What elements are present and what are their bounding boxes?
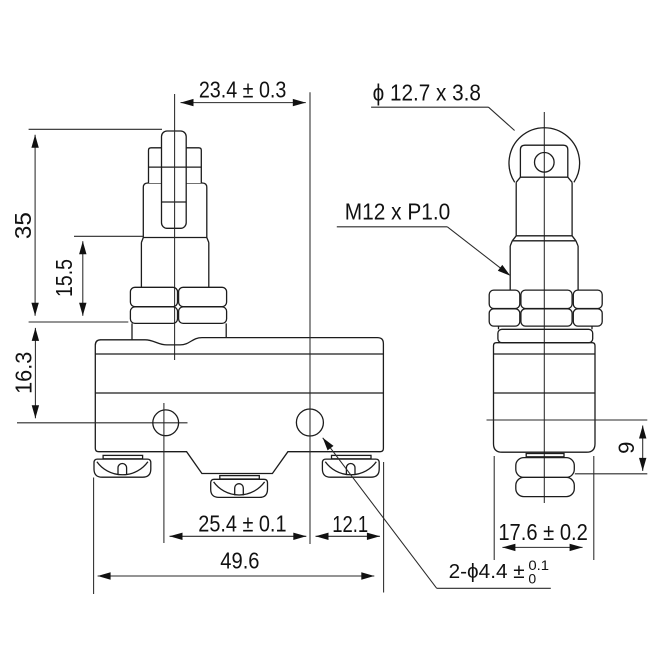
bushing top [512,240,576,242]
dim 23.4 line [181,102,306,104]
bushing side right [577,246,579,290]
dim 12.1 line [316,535,380,537]
hex nut row2 (side view) [489,309,520,326]
dim 17.6 line [502,546,582,548]
body seam 2 (side) [494,392,596,394]
dim 15.5 line [82,241,84,316]
mounting hole right [296,409,323,436]
ext line body right [383,462,385,593]
leader diagonal M12 [447,227,508,274]
ext line body left (side) [493,456,495,560]
svg-text:9: 9 [614,442,639,454]
centerline right view [543,112,545,503]
ext line right hole / 23.4 [309,92,311,544]
svg-text:0: 0 [528,571,536,587]
dim 35 line [34,135,36,316]
bracket chamfer right [568,177,572,182]
leader underline M12 [337,226,448,228]
stem top edge [520,176,567,178]
plunger pin (left view) [162,131,187,228]
bushing chamfer right [576,241,578,246]
dim 25.4 line [170,535,307,537]
svg-text:ϕ 12.7 x 3.8: ϕ 12.7 x 3.8 [373,80,481,106]
svg-text:12.1: 12.1 [332,511,368,537]
flare chamfer left [141,238,143,243]
centerline left view [174,94,176,360]
body seam 2 [95,392,383,394]
plunger second layer [149,148,202,183]
switch body (side view) [494,343,596,453]
plunger section B sides [140,243,142,288]
stem side right [571,182,573,236]
nut-washer connector left (side) [498,326,500,329]
screw flange (side) [526,454,564,457]
svg-text:M12 x P1.0: M12 x P1.0 [345,198,451,224]
nut-body connector left [131,323,133,339]
hex nut row1 (left view) [130,287,177,306]
leader underline [437,587,551,589]
leader underline phi12.7 [371,106,488,108]
ext line left hole [163,403,165,543]
body seam 1 [95,353,383,355]
roller circle [509,128,580,183]
body seam 1 (side) [494,353,596,355]
screw ring2 (side) [516,477,575,496]
right screw [322,455,379,477]
pin cross line [162,201,187,203]
ext line body right (side) [593,456,595,560]
stem bottom line [516,235,572,237]
svg-text:23.4 ± 0.3: 23.4 ± 0.3 [199,77,287,103]
hole centerline [17,422,188,424]
leader diagonal phi12.7 [489,107,515,130]
flare left [512,236,516,241]
svg-text:17.6 ± 0.2: 17.6 ± 0.2 [498,519,588,545]
mounting hole left [153,410,179,436]
stem side left [515,182,517,236]
roller pin hole [535,153,555,173]
roller bracket [520,145,567,177]
dim 49.6 line [98,575,375,577]
bracket chamfer left [516,177,520,182]
leader to right hole [323,438,437,589]
svg-text:15.5: 15.5 [51,259,77,297]
svg-text:35: 35 [10,212,36,239]
screw ring1 (side) [516,458,575,478]
ext line 9 [575,473,648,475]
switch body (left view) [95,338,383,474]
shoulder line across plunger [149,166,202,168]
dim 9 line [642,426,644,471]
svg-text:2-ϕ4.4 ±: 2-ϕ4.4 ± [449,561,525,583]
hex nut row2 (left view) [130,307,177,324]
bushing chamfer left [510,241,512,246]
flare right [572,236,576,241]
dim 16.3 line [34,328,36,418]
svg-text:49.6: 49.6 [220,547,259,573]
svg-text:16.3: 16.3 [10,352,36,394]
center screw [211,476,268,498]
ext line nut bottom [29,321,129,323]
bushing side left [509,246,511,290]
nut-washer connector right (side) [591,326,593,329]
hex nut row1 (side view) [489,290,520,308]
plunger main section A [143,183,207,238]
ext line 49.6 left [93,478,95,595]
nut-body connector right [225,323,227,338]
svg-text:25.4 ± 0.1: 25.4 ± 0.1 [198,510,286,536]
washer collar [498,329,593,342]
ext line plunger top [29,128,162,130]
flare chamfer right [207,238,209,243]
ext line section A top [74,235,143,237]
left screw [94,455,151,477]
hole level line [487,419,648,421]
